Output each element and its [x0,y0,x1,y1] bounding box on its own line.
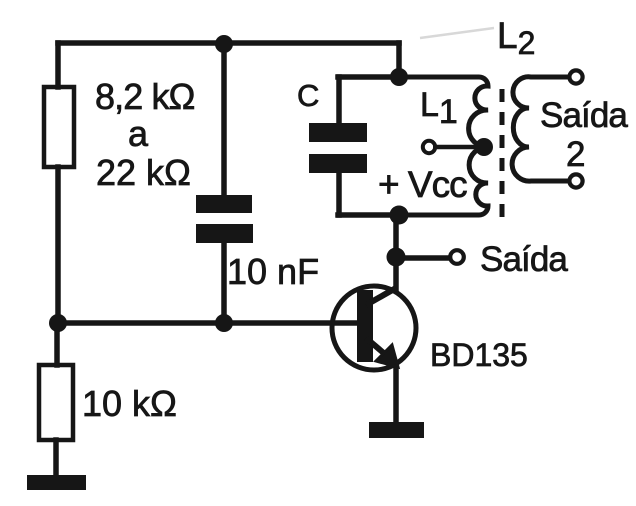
svg-text:+ Vcc: + Vcc [378,164,467,205]
wire tank top [338,74,399,80]
svg-text:8,2 kΩ: 8,2 kΩ [95,76,195,117]
transistor base bar [357,290,373,362]
inductor L2 winding [512,77,568,181]
wire top right drop to tank [396,43,402,77]
wire capacitor C bottom lead [336,173,342,215]
node dot top junction [215,35,233,53]
wire left vertical lower [54,323,60,365]
wire capacitor 10nF top lead [221,45,227,195]
transistor emitter arrowhead [376,345,398,367]
terminal saida output [450,250,464,264]
node dot saida junction [387,248,406,267]
wire L1 tap lead [433,145,480,150]
resistor R1 8,2k-22k [44,87,74,167]
coupling dashed line [500,89,505,217]
svg-text:a: a [128,113,149,154]
capacitor C plate 2 [309,154,367,173]
transistor collector stroke [366,288,396,305]
wire collector vertical [393,215,399,290]
wire to left ground [53,440,59,475]
wire emitter to ground [393,366,399,422]
node dot tank bottom junction [390,206,409,225]
capacitor 10nF plate 2 [196,224,253,243]
svg-text:10 nF: 10 nF [227,251,319,292]
transistor Q1 BD135 circle [332,286,416,370]
ground left [27,475,86,490]
wire base horizontal [58,320,358,326]
capacitor 10nF plate 1 [196,195,252,213]
wire left vertical middle [55,167,61,323]
wire capacitor C top lead [336,77,342,123]
node dot left mid junction [49,314,67,332]
node dot L1 tap [475,138,493,156]
svg-text:C: C [297,78,319,113]
terminal L2 bottom [569,174,582,187]
wire top horizontal [58,40,399,46]
svg-text:BD135: BD135 [430,337,528,373]
svg-text:Saída: Saída [480,240,568,279]
svg-text:2: 2 [566,135,585,174]
svg-text:22 kΩ: 22 kΩ [96,152,191,193]
resistor R2 10k [39,365,73,440]
artifact faint smudge line [420,28,494,38]
node dot cap-base junction [215,314,233,332]
svg-text:Saída: Saída [540,96,628,135]
wire capacitor 10nF bottom lead [221,243,227,323]
inductor L1 winding [338,77,488,215]
wire saida output [396,255,449,261]
capacitor C plate 1 [309,123,367,142]
transistor emitter stroke [366,338,386,355]
wire tank bottom [338,212,399,218]
ground emitter [369,422,424,438]
terminal L1 tap [423,141,435,153]
terminal L2 top [569,70,582,83]
wire left vertical upper [55,43,61,87]
node dot tank top junction [390,68,408,86]
svg-text:10 kΩ: 10 kΩ [82,383,177,424]
